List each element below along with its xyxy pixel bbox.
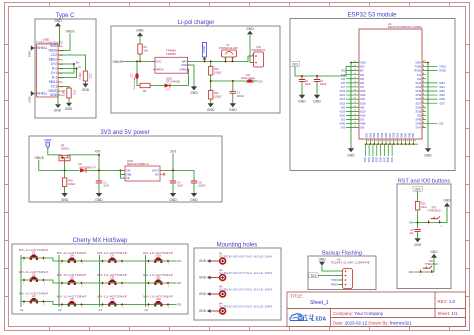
switch U2 MX-1U-HOTSWAP: [19, 270, 49, 285]
switch U8 MX-1U-HOTSWAP: [97, 273, 127, 288]
svg-text:GND: GND: [229, 108, 237, 112]
svg-text:ESP32-S3-WROOM-1-(N8R2): ESP32-S3-WROOM-1-(N8R2): [388, 26, 422, 29]
svg-text:GND: GND: [65, 107, 73, 111]
junction: [301, 75, 303, 77]
svg-text:IO39: IO39: [416, 94, 422, 97]
svg-text:IO36: IO36: [386, 132, 388, 138]
svg-text:D-: D-: [79, 65, 82, 69]
svg-text:IO38: IO38: [388, 156, 390, 162]
svg-text:C1: C1: [20, 308, 24, 312]
svg-text:IO42: IO42: [409, 132, 411, 138]
svg-text:IO19: IO19: [340, 110, 346, 113]
svg-text:IO46: IO46: [360, 123, 366, 126]
junction: [232, 80, 234, 82]
wire row R2: [21, 280, 177, 283]
svg-text:VBUS: VBUS: [65, 30, 75, 34]
svg-text:VBAT: VBAT: [44, 139, 52, 143]
svg-text:U2: U2: [32, 273, 36, 277]
header H1 PZ254V-11-02P: [219, 44, 238, 61]
svg-text:GND: GND: [207, 108, 215, 112]
junction: [210, 80, 212, 82]
svg-text:SZYY0402B: SZYY0402B: [166, 81, 180, 84]
ground flag hole H1: [199, 259, 211, 263]
svg-text:3V3: 3V3: [311, 274, 317, 278]
svg-text:D-2: D-2: [52, 67, 57, 71]
pin numbers bottom: [368, 140, 416, 142]
svg-text:IO19: IO19: [360, 110, 366, 113]
svg-text:GND: GND: [61, 198, 69, 202]
ground flag under R1: [82, 84, 90, 92]
svg-text:RXD0: RXD0: [414, 70, 421, 73]
capacitor C8 1uF: [409, 229, 420, 238]
svg-text:IO40: IO40: [416, 90, 422, 93]
svg-text:IO39: IO39: [439, 94, 445, 97]
svg-text:IO8: IO8: [341, 106, 346, 109]
wire bottom pin stubs: [367, 139, 414, 144]
svg-text:IO47: IO47: [413, 132, 415, 138]
capacitor C4 10uF: [170, 181, 184, 193]
svg-text:IO5: IO5: [341, 78, 346, 81]
svg-text:1: 1: [61, 264, 62, 266]
pin names left: [360, 62, 366, 130]
svg-text:IO40: IO40: [439, 90, 445, 93]
junction D-: [76, 68, 78, 70]
junction: [136, 60, 138, 62]
svg-text:5.1kΩ: 5.1kΩ: [79, 73, 82, 80]
svg-text:IO8: IO8: [360, 106, 365, 109]
svg-text:IO37: IO37: [439, 102, 445, 105]
svg-text:SCREW-MOUNTING-HOLE-3MM: SCREW-MOUNTING-HOLE-3MM: [219, 304, 272, 308]
svg-text:GND: GND: [246, 27, 254, 31]
svg-text:IO2: IO2: [417, 78, 422, 81]
svg-text:TXD0: TXD0: [331, 279, 338, 282]
wire button to ground: [440, 207, 447, 223]
svg-text:IO35: IO35: [382, 132, 384, 138]
svg-text:IO37: IO37: [384, 156, 386, 162]
wire D6 to +5V node to LDO: [86, 169, 125, 171]
wire TP4056 GND to ground: [188, 65, 195, 87]
svg-text:ESP32 S3 module: ESP32 S3 module: [347, 13, 397, 19]
switch U1 MX-1U-HOTSWAP: [19, 248, 49, 263]
wire EN node to button: [418, 222, 429, 224]
junction: [98, 154, 100, 156]
svg-text:IO17: IO17: [340, 98, 346, 101]
svg-text:IO18: IO18: [360, 102, 366, 105]
mounting hole H2 SCREW-MOUNTING-HOLE-3MM: [219, 268, 272, 281]
svg-text:PROG: PROG: [156, 68, 164, 72]
wire column C2: [58, 255, 60, 307]
svg-text:U4: U4: [70, 254, 74, 258]
svg-text:PZ254V-11-04P_C2894448: PZ254V-11-04P_C2894448: [331, 260, 370, 264]
junction: [225, 60, 227, 62]
svg-text:1: 1: [102, 286, 103, 288]
svg-text:U6: U6: [70, 297, 74, 301]
svg-text:VBUS: VBUS: [113, 60, 123, 64]
wire R22 top: [210, 61, 212, 66]
svg-text:IO16: IO16: [340, 94, 346, 97]
svg-text:IO17: IO17: [360, 98, 366, 101]
ground flag bottom right of chip: [424, 148, 432, 157]
svg-text:GND: GND: [54, 19, 62, 23]
wire IO0 label to button: [413, 271, 420, 273]
svg-text:Sheet: 1/1: Sheet: 1/1: [438, 311, 459, 316]
svg-text:2: 2: [82, 307, 83, 309]
wire D-2: [58, 68, 77, 70]
svg-text:EN: EN: [360, 70, 364, 73]
wire right pin stubs: [422, 63, 438, 128]
switch U12 MX-1U-HOTSWAP: [143, 294, 173, 309]
button RST YTS6105UD: [427, 207, 441, 228]
svg-text:GND: GND: [318, 257, 326, 261]
ground flag under R2: [65, 103, 73, 111]
svg-text:Date: 2023-02-12 Drawn By: Date: 2023-02-12 Drawn By: fnemes321: [333, 321, 412, 326]
svg-text:IO36: IO36: [381, 156, 383, 162]
fuse SS-KT netport: [202, 43, 207, 62]
svg-text:SBU1: SBU1: [49, 80, 58, 84]
net labels left: [340, 70, 346, 130]
svg-text:2: 2: [168, 307, 169, 309]
svg-text:Backup Flashing: Backup Flashing: [322, 251, 362, 257]
svg-text:1: 1: [428, 225, 429, 227]
title block: [287, 292, 466, 327]
svg-text:SI2301: SI2301: [61, 147, 70, 150]
wire BAT bus: [188, 56, 254, 61]
svg-text:IO3: IO3: [360, 119, 365, 122]
svg-text:IO16: IO16: [360, 94, 366, 97]
svg-text:2: 2: [168, 286, 169, 288]
wire column C1: [20, 255, 22, 307]
svg-text:D+1: D+1: [51, 71, 57, 75]
svg-text:U9: U9: [110, 297, 114, 301]
svg-text:U3: U3: [32, 294, 36, 298]
svg-text:YTS6105UD: YTS6105UD: [427, 210, 441, 213]
ground flag above IO0 button: [430, 250, 438, 258]
svg-text:EN: EN: [409, 221, 413, 225]
svg-text:GND: GND: [313, 100, 321, 104]
wire GND bus right: [427, 63, 429, 149]
svg-text:NC: NC: [155, 172, 159, 176]
wire 3V3 rail: [295, 66, 359, 76]
svg-text:Cherry MX HotSwap: Cherry MX HotSwap: [73, 238, 128, 244]
ground flag left top (SHELL): [28, 45, 35, 57]
svg-text:SS-KT: SS-KT: [202, 45, 206, 53]
svg-text:IO39: IO39: [398, 132, 400, 138]
svg-text:IO38: IO38: [416, 98, 422, 101]
resistor R19 100k: [62, 178, 75, 187]
svg-text:100nF: 100nF: [237, 95, 245, 98]
wire solder bridge to R6: [137, 79, 140, 86]
svg-text:2: 2: [82, 264, 83, 266]
svg-text:HX25003-2A: HX25003-2A: [252, 49, 266, 52]
svg-text:1uF: 1uF: [409, 232, 414, 235]
wire column C3: [99, 255, 101, 307]
svg-text:IO42: IO42: [439, 82, 445, 85]
svg-text:IO35: IO35: [416, 110, 422, 113]
capacitor C6 100nF: [191, 170, 206, 193]
svg-text:SCREW-MOUNTING-HOLE-3MM: SCREW-MOUNTING-HOLE-3MM: [219, 287, 272, 291]
resistor R21: [209, 91, 222, 100]
svg-text:GND: GND: [136, 29, 144, 33]
svg-text:1: 1: [148, 264, 149, 266]
wire 3V3 to pin2: [318, 275, 342, 277]
svg-text:IO35: IO35: [377, 156, 379, 162]
svg-text:IO21: IO21: [366, 132, 368, 138]
svg-text:VCC: VCC: [156, 59, 162, 63]
svg-text:1: 1: [23, 283, 24, 285]
svg-text:CC2: CC2: [72, 89, 76, 95]
svg-text:IO46: IO46: [340, 123, 346, 126]
ground flag under C6: [190, 193, 198, 202]
svg-text:IO15: IO15: [340, 90, 346, 93]
svg-text:R3: R3: [178, 303, 182, 307]
svg-text:Li-pol charger: Li-pol charger: [178, 20, 215, 26]
wire +5V vertical: [98, 154, 100, 181]
svg-text:IO3: IO3: [258, 79, 263, 83]
no-connect NC: [163, 173, 166, 176]
net flag 3V3: [290, 61, 299, 66]
svg-text:R2: R2: [178, 281, 182, 285]
resistor R6: [140, 83, 150, 93]
svg-text:10kΩ: 10kΩ: [421, 206, 427, 209]
svg-text:RST and IO0 buttons: RST and IO0 buttons: [398, 179, 451, 185]
wire IO0 button to ground: [432, 258, 434, 272]
junction VIN: [120, 169, 122, 171]
svg-text:SCREW-MOUNTING-HOLE-3MM: SCREW-MOUNTING-HOLE-3MM: [219, 271, 272, 275]
chip U3 TP4056: [153, 48, 189, 73]
svg-text:Company: Your Company: Company: Your Company: [333, 311, 384, 316]
chip LDO1 ME6211C33M5G-N: [123, 160, 162, 181]
svg-text:2: 2: [44, 304, 45, 306]
svg-text:1: 1: [23, 304, 24, 306]
svg-text:CC1: CC1: [89, 73, 93, 79]
svg-text:IO26: IO26: [370, 132, 372, 138]
svg-text:IO5: IO5: [360, 78, 365, 81]
svg-text:3V3 and 5V power: 3V3 and 5V power: [100, 130, 149, 136]
ground flag backup: [318, 257, 326, 265]
transistor Q1 SI2301: [59, 144, 70, 161]
svg-text:IO37: IO37: [416, 102, 422, 105]
solder bridge IO3: [241, 74, 256, 83]
svg-text:IO7: IO7: [341, 86, 346, 89]
svg-text:VBUS: VBUS: [48, 49, 57, 53]
wire D+1 pair: [58, 64, 74, 73]
svg-text:VBUS: VBUS: [35, 156, 45, 160]
junction gate node: [64, 169, 66, 171]
svg-text:3V3: 3V3: [170, 150, 176, 154]
svg-text:IO41: IO41: [439, 86, 445, 89]
wire VBUS bottom pin to ground: [57, 91, 59, 104]
svg-text:IO42: IO42: [416, 82, 422, 85]
svg-text:1: 1: [23, 261, 24, 263]
svg-text:10uF: 10uF: [305, 83, 311, 86]
wire ground to CN1 pin2: [250, 34, 254, 62]
svg-text:GND: GND: [199, 259, 207, 263]
svg-text:GND: GND: [95, 198, 103, 202]
svg-text:3V3: 3V3: [360, 66, 365, 69]
svg-text:IO4: IO4: [360, 74, 365, 77]
svg-text:IO3: IO3: [341, 119, 346, 122]
svg-text:GND: GND: [169, 198, 177, 202]
wire to hole: [211, 293, 220, 295]
svg-text:1: 1: [61, 286, 62, 288]
wire LED2 up to CHRG: [188, 69, 189, 85]
svg-text:D+2: D+2: [51, 62, 57, 66]
svg-text:SHELL: SHELL: [37, 92, 47, 96]
svg-text:IO9: IO9: [341, 127, 346, 130]
net flag 3V3 rst: [413, 186, 422, 191]
wire IO3 row: [211, 80, 247, 82]
svg-text:Solder bridge: Solder bridge: [133, 76, 136, 90]
capacitor C3 10uF: [96, 181, 110, 193]
ground flag under C3: [313, 95, 321, 104]
wire to hole: [211, 260, 220, 262]
svg-text:PZ254V-11-02P: PZ254V-11-02P: [219, 46, 238, 50]
svg-text:EN: EN: [342, 70, 346, 73]
switch U4 MX-1U-HOTSWAP: [57, 251, 87, 266]
ground flag top of Type C: [54, 19, 62, 27]
ground flag above R4: [136, 29, 144, 37]
wire R4 top to ground: [139, 36, 141, 44]
svg-text:U12: U12: [156, 297, 162, 301]
svg-text:IO40: IO40: [402, 132, 404, 138]
switch U3 MX-1U-HOTSWAP: [19, 291, 49, 306]
mounting hole H3 SCREW-MOUNTING-HOLE-3MM: [219, 284, 272, 297]
capacitor C3 100nF: [314, 76, 327, 95]
svg-text:IO34: IO34: [373, 156, 375, 162]
svg-text:GND: GND: [443, 199, 451, 203]
svg-text:D+: D+: [76, 61, 80, 65]
svg-text:IO0: IO0: [439, 123, 444, 126]
pin stubs right side of USB1: [34, 46, 60, 95]
net port VBAT: [44, 139, 52, 149]
resistor R1 5.1k: [79, 71, 92, 81]
svg-text:5.1kΩ: 5.1kΩ: [62, 90, 65, 97]
wire R1 to ground: [85, 81, 87, 84]
svg-text:1kΩ: 1kΩ: [144, 49, 149, 52]
svg-text:GND: GND: [199, 276, 207, 280]
svg-text:2: 2: [82, 286, 83, 288]
svg-text:YTS6105UD: YTS6105UD: [424, 263, 438, 266]
wire 3V3 to R20: [417, 191, 419, 201]
svg-text:1: 1: [102, 264, 103, 266]
junction dots bottom bus: [366, 143, 414, 145]
wire 3V3 down: [172, 153, 174, 181]
svg-text:3V3: 3V3: [415, 187, 421, 191]
pin names bottom: [366, 132, 415, 138]
capacitor C2 10uF: [299, 76, 311, 95]
wire to hole: [211, 277, 220, 279]
junction EN: [417, 222, 419, 224]
wire D-1 pair: [58, 69, 77, 78]
svg-text:GND: GND: [415, 62, 421, 65]
ground flag left bottom (SHELL): [28, 91, 35, 103]
ground flag hole H3: [199, 292, 211, 296]
junction: [427, 62, 429, 64]
wire bottom bus: [365, 143, 419, 145]
wire VBUS to TP4056 VCC: [122, 60, 156, 62]
svg-text:TXD0: TXD0: [415, 66, 422, 69]
pin numbers left: [354, 60, 356, 127]
switch U10 MX-1U-HOTSWAP: [143, 251, 173, 266]
section titles: [55, 13, 450, 257]
svg-text:GND: GND: [28, 96, 32, 102]
svg-text:GND: GND: [50, 93, 58, 97]
svg-text:U8: U8: [110, 276, 114, 280]
switch U5 MX-1U-HOTSWAP: [57, 273, 87, 288]
svg-text:GND: GND: [54, 109, 62, 113]
junction D+: [73, 63, 75, 65]
svg-text:GND: GND: [414, 243, 422, 247]
pin names right: [414, 62, 421, 130]
wire to IO3 label: [253, 80, 258, 82]
svg-text:EDA: EDA: [316, 317, 327, 323]
ground flag hole H4: [199, 309, 211, 313]
svg-text:GND: GND: [199, 292, 207, 296]
resistor R2 5.1k: [62, 88, 76, 98]
svg-text:2: 2: [433, 275, 434, 277]
svg-text:CHRG: CHRG: [179, 67, 187, 71]
svg-text:IO36: IO36: [416, 106, 422, 109]
solder bridge LED: [131, 73, 139, 90]
svg-text:2: 2: [44, 283, 45, 285]
junction: [98, 169, 100, 171]
connector H2 PZ254V-11-04P: [331, 257, 370, 288]
svg-text:100kΩ: 100kΩ: [214, 95, 221, 98]
ground flag under C3: [95, 193, 103, 202]
junction: [139, 60, 141, 62]
svg-text:CC2: CC2: [51, 53, 58, 57]
ground flag under C4: [169, 193, 177, 202]
svg-text:GND: GND: [360, 62, 366, 65]
wire R22 to R21: [210, 75, 212, 91]
svg-text:VOUT: VOUT: [152, 168, 160, 172]
wire R2 to ground: [68, 98, 70, 103]
ground flag bottom left: [54, 104, 62, 112]
wire CC1 to R2: [58, 87, 69, 89]
svg-text:1: 1: [148, 307, 149, 309]
svg-text:IO6: IO6: [360, 82, 365, 85]
wire VBUS to solder bridge: [136, 61, 138, 73]
chip U2 ESP32-S3-WROOM-1: [359, 23, 422, 139]
svg-text:CC1: CC1: [51, 85, 58, 89]
svg-text:3V3: 3V3: [292, 62, 298, 66]
ground flag hole H2: [199, 276, 211, 280]
wire VBUS to rail: [39, 160, 80, 171]
svg-text:GND: GND: [181, 63, 187, 67]
svg-text:GND: GND: [424, 153, 432, 157]
svg-text:IO20: IO20: [340, 115, 346, 118]
svg-text:GND: GND: [430, 250, 438, 254]
wire Q1 drain to +5V node: [68, 154, 99, 156]
svg-text:1: 1: [148, 286, 149, 288]
svg-text:U7: U7: [110, 254, 114, 258]
svg-text:SBU2: SBU2: [49, 58, 58, 62]
svg-text:BAT: BAT: [182, 59, 187, 63]
pin numbers right: [423, 60, 425, 127]
svg-text:IO38: IO38: [439, 98, 445, 101]
junction: [172, 169, 174, 171]
svg-text:+5V: +5V: [94, 150, 101, 154]
svg-text:U11: U11: [156, 276, 161, 280]
svg-text:10uF: 10uF: [177, 185, 183, 188]
svg-text:Sheet_1: Sheet_1: [310, 300, 329, 306]
svg-text:IO7: IO7: [360, 86, 365, 89]
capacitor C1 100nF: [230, 81, 245, 104]
wire R21 to ground: [210, 99, 212, 104]
svg-text:IO38: IO38: [394, 132, 396, 138]
wire column C4: [145, 255, 147, 307]
wire EN label: [413, 222, 417, 224]
